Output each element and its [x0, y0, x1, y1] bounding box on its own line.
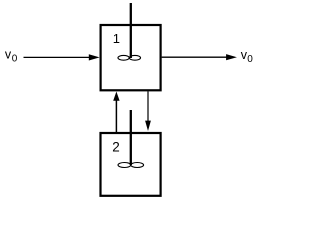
impeller tank 1 — [118, 55, 141, 60]
svg-text:1: 1 — [113, 31, 120, 46]
tank 2 (box) — [101, 133, 161, 196]
svg-text:2: 2 — [112, 139, 120, 154]
feed arrow into tank 1 — [24, 54, 100, 60]
outlet arrow from tank 1 — [162, 54, 237, 60]
svg-text:0: 0 — [247, 54, 253, 65]
svg-text:0: 0 — [12, 54, 18, 65]
recycle arrow up (tank 2 to tank 1) — [113, 92, 119, 134]
stirrer shaft tank 1 — [130, 3, 132, 58]
stirrer shaft tank 2 — [130, 110, 132, 165]
transfer arrow down (tank 1 to tank 2) — [145, 91, 151, 131]
impeller tank 2 — [118, 163, 144, 168]
tank 1 (box) — [101, 25, 161, 90]
